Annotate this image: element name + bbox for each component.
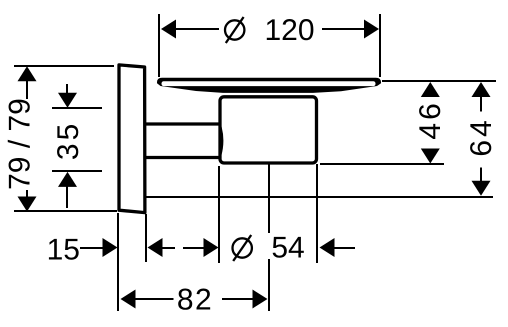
svg-text:64: 64	[465, 117, 498, 156]
svg-text:79 / 79: 79 / 79	[4, 98, 37, 190]
dim 46 top arrow	[421, 82, 440, 97]
svg-text:35: 35	[52, 121, 85, 160]
soap dish rim slot	[162, 81, 376, 86]
dim Ø120 left arrow	[161, 20, 176, 39]
dim 79/79 bottom extension line	[14, 210, 117, 212]
svg-text:15: 15	[47, 234, 80, 267]
cup left extension line (vertical)	[218, 166, 220, 263]
dish top right extension line	[382, 80, 496, 82]
dim 35 top arrow (outside)	[58, 93, 77, 108]
dim 46 bottom arrow	[421, 149, 440, 164]
wall plate	[119, 65, 145, 213]
dim Ø54 left arrow (outside)	[204, 238, 219, 257]
cup (holder)	[220, 97, 317, 163]
dim Ø54 right arrow (outside)	[320, 238, 335, 257]
arm end cap curve	[220, 126, 222, 156]
plate left extension line (vertical)	[117, 213, 119, 311]
dim 79/79 top arrow	[18, 66, 37, 81]
dim 15 right arrow (outside)	[148, 238, 163, 257]
baseline extension line	[146, 196, 493, 198]
cup center line lower	[268, 259, 270, 311]
cup right extension line (vertical)	[316, 164, 318, 263]
dim Ø120 left extension line	[158, 14, 160, 77]
arm bottom line	[145, 156, 220, 159]
dim 15 leader line	[80, 247, 104, 249]
dim 35 bottom arrow (outside)	[58, 172, 77, 187]
plate right extension line (vertical)	[145, 214, 147, 262]
dim Ø54 diameter symbol	[233, 238, 252, 257]
svg-text:46: 46	[414, 100, 447, 139]
dim 64 top arrow	[472, 82, 491, 97]
dim 82 right arrow	[253, 290, 268, 309]
arm top line	[145, 122, 220, 125]
dim 64 bottom arrow	[472, 181, 491, 196]
dim Ø120 diameter symbol	[225, 20, 244, 39]
svg-text:82: 82	[177, 284, 213, 317]
dim 15 left arrow	[103, 238, 118, 257]
dim Ø120 right extension line	[379, 14, 381, 77]
dim 79/79 bottom arrow	[18, 197, 37, 212]
dim 35 bottom extension line	[52, 170, 102, 172]
dim Ø120 line left segment	[175, 28, 219, 30]
svg-text:120: 120	[264, 14, 314, 47]
soap dish silhouette	[157, 78, 381, 93]
dim 79/79 top extension line	[14, 65, 114, 67]
dim Ø120 line right segment	[322, 28, 365, 30]
cup bottom right extension line	[320, 163, 444, 165]
dim 35 top extension line	[52, 107, 102, 109]
svg-text:54: 54	[271, 232, 304, 265]
dim 82 left arrow	[121, 290, 136, 309]
cup center line upper	[268, 163, 270, 233]
dim Ø120 right arrow	[364, 20, 379, 39]
